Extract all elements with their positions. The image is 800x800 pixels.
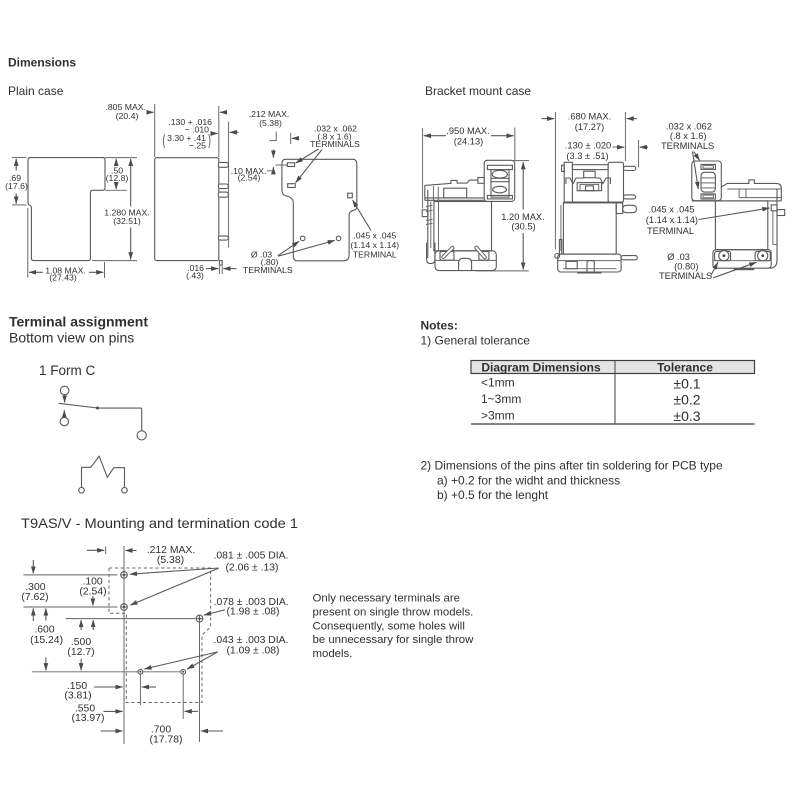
mounting hole 3 (196, 615, 203, 622)
coil terminal right (122, 488, 128, 494)
svg-text:−.25: −.25 (189, 141, 206, 151)
dimension .680 MAX (17.27) (554, 112, 556, 249)
svg-text:(3.3 ± .51): (3.3 ± .51) (566, 151, 608, 161)
svg-text:models.: models. (313, 648, 353, 660)
pin stub bottom (219, 261, 222, 266)
extension lines (154, 104, 156, 157)
pin 4 (218, 236, 228, 240)
svg-text:(1.09 ± .08): (1.09 ± .08) (226, 646, 279, 657)
hole column centerline (123, 546, 125, 744)
round terminal hole 2 (336, 236, 341, 241)
wire common horizontal (98, 407, 142, 409)
rivet slot left (443, 248, 452, 257)
relay body (434, 202, 492, 251)
svg-text:.600: .600 (34, 625, 54, 636)
square terminal .045 (771, 205, 777, 211)
cover top (425, 180, 478, 185)
svg-text:be unnecessary for single thro: be unnecessary for single throw (313, 634, 475, 646)
mounting strap left (427, 190, 429, 258)
extension line row 3 (66, 618, 196, 620)
extension line row 1 (23, 574, 117, 576)
svg-text:(20.4): (20.4) (116, 111, 139, 121)
junction node (96, 407, 99, 410)
cover (721, 180, 781, 201)
svg-text:TERMINAL: TERMINAL (353, 249, 397, 259)
square terminal .045 (348, 193, 353, 198)
svg-text:±0.2: ±0.2 (673, 392, 700, 408)
svg-text:(7.62): (7.62) (21, 592, 48, 603)
dashed footprint outline (109, 568, 211, 703)
strap (560, 205, 562, 251)
svg-text:(30.5): (30.5) (511, 222, 535, 232)
svg-text:(32.51): (32.51) (113, 216, 141, 226)
svg-text:TERMINALS: TERMINALS (661, 141, 714, 151)
headings (8, 56, 531, 532)
svg-text:.043 ± .003 DIA.: .043 ± .003 DIA. (213, 635, 288, 646)
svg-text:(1.14 x 1.14): (1.14 x 1.14) (646, 215, 698, 225)
svg-text:(2.54): (2.54) (79, 586, 106, 597)
coil symbol (82, 456, 125, 487)
wire common vertical (141, 408, 143, 431)
round terminal hole 1 (300, 236, 305, 241)
svg-text:Bottom view on pins: Bottom view on pins (9, 330, 134, 346)
svg-text:(2.06 ± .13): (2.06 ± .13) (225, 563, 278, 574)
terminal slot 2 (288, 184, 296, 188)
relay case bottom-view outline (282, 159, 357, 260)
relay body (563, 203, 616, 254)
svg-text:TERMINAL: TERMINAL (647, 226, 694, 236)
dimension .950 MAX (24.13) (422, 128, 424, 209)
hole 3 column (199, 622, 201, 742)
dimension .805 MAX (20.4) (147, 111, 154, 113)
svg-text:.045 x .045: .045 x .045 (649, 204, 695, 214)
terminal slot 1 (287, 163, 294, 167)
svg-text:>3mm: >3mm (481, 409, 515, 423)
svg-text:.680 MAX.: .680 MAX. (568, 111, 611, 121)
svg-text:(12.8): (12.8) (106, 173, 129, 183)
hole 4 column (139, 675, 141, 706)
svg-text:Only necessary terminals are: Only necessary terminals are (313, 593, 461, 605)
NC terminal circle (60, 386, 69, 395)
svg-text:±0.3: ±0.3 (673, 408, 700, 424)
svg-text:.130 ± .020: .130 ± .020 (565, 140, 611, 150)
contact stack assembly (484, 160, 515, 201)
mounting hole 5 (181, 669, 186, 674)
terminal row extension (276, 164, 288, 166)
relay case side outline (155, 158, 219, 261)
dimension .10 MAX (2.54) (272, 150, 274, 158)
svg-text:Plain case: Plain case (8, 84, 64, 98)
svg-text:.950 MAX.: .950 MAX. (446, 126, 489, 136)
NO contact arrow (63, 410, 65, 417)
svg-text:(12.7): (12.7) (67, 647, 94, 658)
bottom flange (713, 250, 771, 269)
armature top section (564, 162, 572, 202)
relay case front outline (28, 158, 105, 261)
svg-text:(27.43): (27.43) (49, 272, 77, 282)
dimension 1.280 MAX (32.51) (105, 157, 137, 159)
svg-text:(0.80): (0.80) (674, 261, 698, 271)
bottom flange (435, 251, 496, 271)
dimension .016 (.43) (218, 266, 220, 274)
svg-text:(17.27): (17.27) (575, 122, 604, 132)
svg-text:(1.98 ± .08): (1.98 ± .08) (226, 607, 279, 618)
svg-text:(24.13): (24.13) (454, 136, 483, 146)
svg-text:(5.38): (5.38) (157, 555, 184, 566)
svg-text:1) General tolerance: 1) General tolerance (421, 334, 531, 348)
mounting hole 4 (138, 669, 143, 674)
svg-text:T9AS/V - Mounting and terminat: T9AS/V - Mounting and termination code 1 (21, 515, 298, 531)
svg-text:(1.14 x 1.14): (1.14 x 1.14) (350, 240, 399, 250)
terminal lug .045 (623, 205, 637, 212)
svg-text:(5.38): (5.38) (259, 118, 282, 128)
NC contact arrow (64, 395, 66, 403)
svg-text:Bracket mount case: Bracket mount case (425, 84, 531, 98)
dimension 1.20 MAX (30.5) (513, 160, 530, 162)
svg-text:(17.6): (17.6) (5, 181, 28, 191)
rivet slot right (476, 248, 485, 258)
movable contact blade (59, 403, 98, 408)
right strap (776, 189, 778, 261)
svg-text:Diagram Dimensions: Diagram Dimensions (481, 360, 601, 374)
svg-text:±0.1: ±0.1 (673, 375, 700, 391)
tolerance table (471, 360, 755, 424)
svg-text:a) +0.2 for the widht and thic: a) +0.2 for the widht and thickness (437, 474, 620, 488)
terminal block (692, 161, 722, 201)
mounting hole 1 (121, 572, 128, 579)
svg-text:1.20 MAX.: 1.20 MAX. (501, 212, 544, 222)
dimension .69 (17.6) (12, 157, 27, 159)
svg-text:Terminal assignment: Terminal assignment (9, 314, 148, 330)
svg-text:.081 ± .005 DIA.: .081 ± .005 DIA. (213, 551, 288, 562)
svg-text:(13.97): (13.97) (72, 713, 105, 724)
paragraph: single throw note (313, 593, 475, 661)
dimension 1.08 MAX (27.43) (27, 208, 29, 278)
svg-text:Dimensions: Dimensions (8, 56, 76, 70)
coil terminal left (79, 488, 85, 494)
notes (421, 319, 723, 503)
NO terminal circle (60, 417, 68, 425)
svg-text:TERMINALS: TERMINALS (659, 271, 712, 281)
svg-text:(.8 x 1.6): (.8 x 1.6) (670, 131, 707, 141)
svg-text:(.43): (.43) (186, 270, 204, 280)
relay body (715, 201, 767, 250)
svg-text:(2.54): (2.54) (238, 173, 261, 183)
svg-text:1~3mm: 1~3mm (481, 392, 521, 406)
bottom flange (558, 254, 621, 272)
dimension .50 (12.8) (105, 189, 127, 191)
dimension .130 +- .020 (638, 140, 640, 168)
extension line row 4 (32, 671, 138, 673)
common terminal circle (137, 431, 146, 440)
svg-text:.045 x .045: .045 x .045 (353, 230, 396, 240)
svg-text:Tolerance: Tolerance (657, 360, 713, 374)
svg-text:TERMINALS: TERMINALS (243, 265, 293, 275)
pin 3 (218, 192, 228, 197)
svg-text:(17.78): (17.78) (150, 735, 183, 746)
svg-text:(3.81): (3.81) (64, 691, 91, 702)
svg-text:(15.24): (15.24) (30, 635, 63, 646)
pin 1 (218, 162, 228, 167)
svg-text:1 Form C: 1 Form C (39, 363, 96, 378)
svg-text:Notes:: Notes: (421, 319, 458, 333)
dimension .130 +.016 -.010 (212, 133, 218, 135)
svg-text:Consequently, some holes will: Consequently, some holes will (313, 620, 465, 632)
svg-text:2) Dimensions of the pins afte: 2) Dimensions of the pins after tin sold… (421, 459, 723, 473)
hole 5 column (182, 675, 184, 720)
mounting hole 2 (121, 604, 128, 611)
svg-text:present on single throw models: present on single throw models. (313, 606, 474, 618)
pin 2 (218, 184, 228, 189)
svg-text:b) +0.5 for the lenght: b) +0.5 for the lenght (437, 488, 549, 502)
svg-text:TERMINALS: TERMINALS (310, 139, 360, 149)
extension line row 2 (23, 606, 117, 608)
svg-text:<1mm: <1mm (481, 375, 515, 389)
